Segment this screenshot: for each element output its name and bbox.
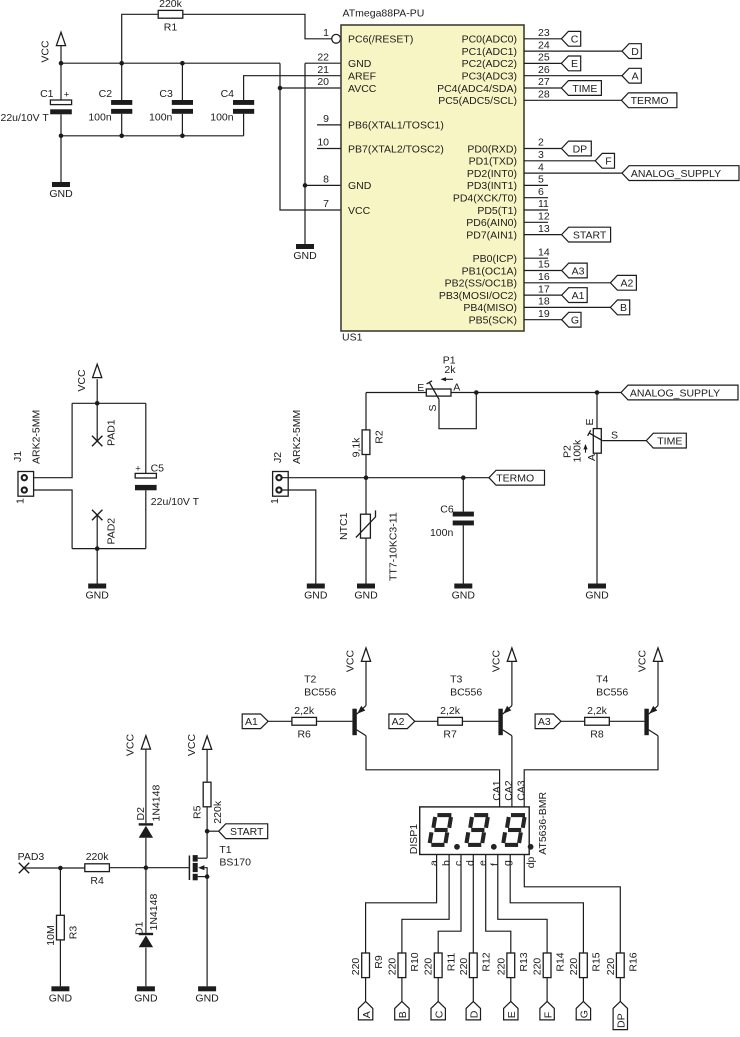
svg-text:R12: R12 [481, 952, 493, 971]
wire NTC1 top [365, 478, 367, 515]
svg-text:2,2k: 2,2k [440, 705, 461, 717]
svg-text:21: 21 [317, 64, 329, 76]
svg-text:GND: GND [49, 992, 73, 1004]
svg-text:C: C [433, 1010, 445, 1018]
svg-text:R1: R1 [164, 22, 178, 34]
wire A2 to R7 [415, 720, 438, 722]
wire R2 top [365, 393, 367, 430]
wire R3 bottom [59, 940, 61, 986]
wire NTC1 bottom [365, 538, 367, 583]
svg-text:TERMO: TERMO [631, 95, 669, 107]
wire T4 collector to CA3 [524, 736, 658, 807]
wire R11 to flag C [437, 978, 439, 1002]
svg-text:20: 20 [317, 76, 329, 88]
svg-text:C1: C1 [40, 88, 54, 100]
wire node to T1 gate [146, 867, 189, 869]
svg-text:GND: GND [348, 58, 372, 70]
pad PAD2 [92, 510, 102, 520]
wire VCC arrow to bus [60, 46, 62, 64]
svg-text:PD3(INT1): PD3(INT1) [467, 180, 517, 192]
net flag E (segment) [504, 1001, 518, 1020]
wire R3 top [59, 868, 61, 915]
net flag A1 [562, 288, 588, 303]
wire R7 to T3 base [462, 720, 498, 722]
net flag B [610, 300, 629, 315]
net flag A2 [610, 275, 636, 290]
wire R13 to flag E [510, 978, 512, 1002]
wire segment b to R10 [402, 855, 449, 954]
wire R15 to flag G [582, 978, 584, 1002]
svg-text:PB4(MISO): PB4(MISO) [463, 302, 517, 314]
svg-text:T4: T4 [596, 673, 608, 685]
svg-text:BS170: BS170 [219, 856, 251, 868]
wire C2 bottom [121, 114, 123, 136]
svg-text:2,2k: 2,2k [294, 705, 315, 717]
pin 4 wire [524, 172, 622, 174]
svg-text:e: e [477, 860, 489, 866]
junction GND pin 8 [303, 183, 308, 188]
ground (D1) [134, 986, 158, 1004]
svg-text:C6: C6 [440, 504, 454, 516]
wire START stub [207, 830, 219, 832]
net flag F [595, 153, 614, 168]
wire R10 to flag B [401, 978, 403, 1002]
wire P1 wiper loop [439, 393, 476, 429]
svg-text:1: 1 [269, 498, 281, 504]
wire R1 left to VCC bus [122, 14, 159, 63]
svg-text:US1: US1 [342, 332, 363, 344]
wire A1 to R6 [268, 720, 292, 722]
resistor R16 220 [605, 952, 640, 977]
pin 16 wire [524, 282, 610, 284]
pin 11 stub [524, 209, 548, 211]
svg-text:GND: GND [585, 590, 609, 602]
svg-text:PB3(MOSI/OC2): PB3(MOSI/OC2) [439, 290, 517, 302]
capacitor C4 100n [210, 88, 254, 123]
pad PAD3 [19, 863, 29, 873]
svg-text:28: 28 [538, 89, 550, 101]
svg-text:A3: A3 [572, 265, 585, 277]
wire PAD2 stub [96, 516, 98, 549]
wire P2 wiper to TIME [602, 440, 646, 442]
svg-text:GND: GND [49, 188, 73, 200]
wire R12 to flag D [472, 978, 474, 1002]
svg-text:PD7(AIN1): PD7(AIN1) [466, 229, 517, 241]
resistor R13 220 [495, 952, 530, 977]
svg-text:B: B [620, 302, 627, 314]
svg-text:VCC: VCC [76, 369, 88, 392]
net flag B (segment) [395, 1001, 409, 1020]
wire segment f to R14 [498, 855, 547, 954]
svg-text:START: START [573, 229, 607, 241]
ground (P2) [585, 584, 609, 602]
wire bus to GND [60, 136, 62, 182]
wire R4 to diode node [110, 867, 146, 869]
resistor R9 220 [350, 953, 385, 978]
pin 6 stub [524, 197, 548, 199]
display DISP1 AT5636-BMR body [408, 792, 549, 855]
svg-text:R10: R10 [409, 952, 421, 971]
pin 9 stub [317, 124, 341, 126]
ground (NTC1) [354, 584, 378, 602]
svg-text:ANALOG_SUPPLY: ANALOG_SUPPLY [630, 387, 720, 399]
resistor R14 220 [532, 952, 567, 977]
wire T1 source to GND [206, 877, 208, 987]
wire T2 collector to CA1 [366, 736, 500, 807]
wire P2 bottom [596, 453, 598, 583]
svg-text:22u/10V T: 22u/10V T [151, 496, 200, 508]
net flag DP (segment) [613, 1001, 627, 1029]
wire GND pin 8 [305, 184, 341, 186]
net flag START [562, 227, 611, 242]
svg-text:R4: R4 [90, 875, 104, 887]
svg-text:T3: T3 [450, 673, 462, 685]
net flag E [561, 56, 580, 71]
svg-text:PB5(SCK): PB5(SCK) [469, 315, 517, 327]
diode D1 1N4148 [139, 933, 153, 948]
net flag D [622, 44, 641, 59]
svg-text:dp: dp [525, 856, 537, 868]
pin 10 stub [317, 148, 341, 150]
net flag TERMO [621, 93, 677, 108]
svg-text:3: 3 [538, 149, 544, 161]
wire ANALOG_SUPPLY rail right [451, 392, 621, 394]
capacitor C6 100n [430, 504, 474, 539]
wire R1 right to reset pin 1 [183, 14, 332, 39]
wire C2 top [121, 63, 123, 100]
svg-text:220: 220 [568, 958, 580, 976]
svg-text:PB6(XTAL1/TOSC1): PB6(XTAL1/TOSC1) [348, 120, 444, 132]
svg-text:220: 220 [532, 958, 544, 976]
svg-text:G: G [579, 1010, 591, 1018]
svg-text:PD0(RXD): PD0(RXD) [467, 143, 517, 155]
svg-text:GND: GND [354, 590, 378, 602]
junction C1/GND bus [59, 134, 64, 139]
svg-text:PC2(ADC2): PC2(ADC2) [462, 58, 517, 70]
net flag C (segment) [431, 1001, 445, 1020]
svg-text:b: b [441, 860, 453, 866]
svg-text:100n: 100n [88, 111, 112, 123]
ground (C6) [452, 584, 476, 602]
svg-text:15: 15 [538, 259, 550, 271]
svg-text:27: 27 [538, 76, 550, 88]
svg-text:GND: GND [86, 590, 110, 602]
svg-text:CA2: CA2 [503, 780, 515, 801]
wire C5 top [145, 403, 147, 473]
svg-text:F: F [542, 1012, 554, 1018]
pin 17 wire [524, 294, 562, 296]
svg-text:PC4(ADC4/SDA): PC4(ADC4/SDA) [437, 83, 517, 95]
svg-text:220: 220 [423, 958, 435, 976]
wire J2 pin1 to GND [282, 490, 316, 584]
pin 5 stub [524, 184, 548, 186]
wire R6 to T2 base [317, 720, 353, 722]
wire PAD3 to R4 [24, 867, 85, 869]
svg-text:a: a [428, 860, 440, 866]
diode D2 1N4148 [139, 823, 153, 838]
svg-text:2k: 2k [444, 364, 456, 376]
svg-text:23: 23 [538, 27, 550, 39]
ground (R3) [49, 986, 73, 1004]
svg-text:D: D [631, 46, 639, 58]
resistor R5 220k [192, 782, 225, 823]
wire TERMO rail [282, 477, 489, 479]
svg-text:S: S [611, 430, 618, 442]
capacitor C5 (electrolytic 22u/10V T) [135, 463, 200, 508]
resistor R8 2,2k [585, 705, 610, 741]
svg-text:C: C [571, 34, 579, 46]
svg-text:ARK2-5MM: ARK2-5MM [291, 410, 303, 464]
wire R9 to flag A [365, 978, 367, 1002]
svg-text:C5: C5 [151, 463, 165, 475]
pin 2 wire [524, 148, 562, 150]
svg-text:16: 16 [538, 271, 550, 283]
svg-text:A: A [361, 1011, 373, 1018]
wire rail to J1 pin 2 [27, 403, 72, 477]
svg-text:2: 2 [538, 137, 544, 149]
svg-text:PAD1: PAD1 [106, 419, 118, 446]
junction C6 [461, 475, 466, 480]
svg-text:ATmega88PA-PU: ATmega88PA-PU [343, 8, 425, 20]
power VCC (J1 section) [76, 364, 102, 391]
svg-text:220k: 220k [86, 851, 110, 863]
svg-text:BC556: BC556 [596, 687, 628, 699]
svg-text:220: 220 [605, 958, 617, 976]
svg-text:25: 25 [538, 52, 550, 64]
wire segment a to R9 [366, 855, 437, 954]
svg-text:1: 1 [14, 498, 26, 504]
wire T3 collector to CA2 [511, 736, 513, 807]
svg-text:R11: R11 [446, 953, 458, 972]
wire R8 to T4 base [609, 720, 644, 722]
svg-text:GND: GND [348, 180, 372, 192]
svg-text:22: 22 [317, 51, 329, 63]
svg-text:R15: R15 [591, 952, 603, 971]
resistor R2 9,1k [351, 430, 386, 458]
svg-text:CA3: CA3 [516, 780, 528, 801]
svg-text:J2: J2 [272, 452, 284, 463]
svg-text:1N4148: 1N4148 [148, 894, 160, 931]
svg-text:B: B [397, 1011, 409, 1018]
svg-text:8: 8 [323, 174, 329, 186]
svg-text:220: 220 [386, 958, 398, 976]
svg-text:PC5(ADC5/SCL): PC5(ADC5/SCL) [438, 95, 517, 107]
svg-text:PC1(ADC1): PC1(ADC1) [462, 46, 517, 58]
wire segment c to R11 [438, 855, 461, 954]
net flag A [622, 68, 641, 83]
svg-text:PD2(INT0): PD2(INT0) [467, 168, 517, 180]
power VCC (D2) [125, 733, 151, 756]
wire rail to GND [96, 549, 98, 584]
power VCC (T4) [637, 648, 663, 672]
svg-text:C3: C3 [159, 88, 173, 100]
svg-text:6: 6 [538, 186, 544, 198]
svg-text:9: 9 [323, 113, 329, 125]
junction D1/D2/gate [144, 865, 149, 870]
resistor R10 220 [386, 952, 421, 977]
junction P2 [595, 390, 600, 395]
net flag F (segment) [540, 1001, 554, 1020]
wire D2 anode to node [145, 838, 147, 868]
svg-text:14: 14 [538, 246, 550, 258]
svg-text:BC556: BC556 [450, 687, 482, 699]
junction C2/GND bus [119, 134, 124, 139]
ground (J1) [86, 584, 110, 602]
ground (T1) [195, 986, 219, 1004]
svg-text:17: 17 [538, 283, 550, 295]
svg-text:5: 5 [538, 174, 544, 186]
resistor R12 220 [458, 952, 493, 977]
wire VCC to pin 7 [280, 63, 341, 210]
wire VCC to R5 [206, 749, 208, 782]
wire VCC top bus [61, 62, 280, 64]
net flag START [219, 824, 268, 839]
svg-text:G: G [571, 315, 579, 327]
thermistor NTC1 TT7-10KC3-11 [338, 510, 399, 581]
net flag A2 (drive) [389, 714, 415, 729]
ground (IC) [293, 244, 317, 262]
svg-text:TIME: TIME [572, 83, 597, 95]
svg-text:TERMO: TERMO [496, 473, 534, 485]
svg-text:E: E [571, 58, 578, 70]
pin 19 wire [524, 319, 562, 321]
svg-text:10: 10 [317, 137, 329, 149]
junction VCC rail [95, 401, 100, 406]
wire R14 to flag F [546, 978, 548, 1002]
svg-text:AT5636-BMR: AT5636-BMR [537, 792, 549, 855]
ground (J2) [304, 584, 328, 602]
pin 1 inversion circle [332, 34, 341, 43]
svg-text:R2: R2 [373, 430, 385, 444]
wire segment dp to R16 [524, 855, 620, 954]
wire C6 top [462, 478, 464, 512]
wire R2 bottom [365, 455, 367, 478]
svg-text:9,1k: 9,1k [351, 437, 363, 458]
svg-text:PB7(XTAL2/TOSC2): PB7(XTAL2/TOSC2) [348, 143, 444, 155]
net flag G (segment) [576, 1001, 590, 1020]
svg-text:R14: R14 [554, 952, 566, 971]
svg-text:PD1(TXD): PD1(TXD) [469, 156, 517, 168]
pin 24 wire [524, 50, 622, 52]
svg-text:VCC: VCC [491, 649, 503, 672]
potentiometer P2 100k [562, 418, 618, 462]
svg-text:D1: D1 [133, 921, 145, 935]
wire VCC to D2 [145, 749, 147, 823]
display digits 8.8.8. [430, 815, 534, 850]
svg-text:D2: D2 [135, 807, 147, 821]
wire segment d to R12 [472, 855, 474, 954]
junction VCC/C2/R1 [119, 61, 124, 66]
wire VCC to T3 emitter [511, 661, 513, 705]
svg-text:DP: DP [573, 143, 588, 155]
svg-text:T2: T2 [304, 673, 316, 685]
resistor R11 220 [423, 953, 458, 978]
wire GND bottom bus [61, 135, 244, 137]
svg-text:E: E [506, 1011, 518, 1018]
pin 28 wire [524, 99, 621, 101]
svg-text:100n: 100n [210, 111, 234, 123]
svg-text:g: g [502, 860, 514, 866]
svg-text:A3: A3 [538, 716, 551, 728]
capacitor C2 100n [88, 88, 132, 123]
svg-text:A1: A1 [245, 716, 258, 728]
connector J2 ARK2-5MM [269, 410, 303, 504]
net flag A (segment) [358, 1001, 372, 1020]
svg-text:R8: R8 [590, 729, 604, 741]
net flag C [561, 31, 580, 46]
wire ANALOG_SUPPLY rail left [366, 392, 426, 394]
svg-text:TT7-10KC3-11: TT7-10KC3-11 [387, 512, 399, 581]
svg-text:11: 11 [538, 198, 549, 210]
svg-text:A2: A2 [620, 278, 633, 290]
svg-text:VCC: VCC [40, 40, 52, 63]
svg-text:NTC1: NTC1 [338, 512, 350, 540]
svg-text:PC6(/RESET): PC6(/RESET) [348, 34, 413, 46]
svg-text:26: 26 [538, 64, 550, 76]
resistor R7 2,2k [438, 705, 463, 741]
svg-text:GND: GND [134, 992, 158, 1004]
resistor R6 2,2k [292, 705, 317, 741]
net flag TERMO (sense node) [489, 470, 545, 485]
svg-text:R3: R3 [68, 926, 80, 940]
junction PAD2/GND rail [95, 546, 100, 551]
junction AVCC branch [278, 86, 283, 91]
transistor T4 BC556 (PNP) [596, 673, 658, 736]
svg-text:DISP1: DISP1 [408, 824, 420, 855]
svg-text:PB1(OC1A): PB1(OC1A) [462, 265, 517, 277]
svg-text:1N4148: 1N4148 [151, 785, 163, 822]
net flag A3 (drive) [535, 714, 561, 729]
svg-text:d: d [465, 860, 477, 866]
svg-text:R13: R13 [518, 952, 530, 971]
svg-text:T1: T1 [219, 844, 231, 856]
svg-text:c: c [452, 861, 464, 866]
wire node to D1 [145, 868, 147, 933]
svg-text:12: 12 [538, 211, 550, 223]
transistor T1 BS170 (N-MOSFET) [189, 844, 251, 880]
net flag DP [562, 141, 592, 156]
resistor R3 10M [45, 915, 80, 945]
junction R2/NTC1 [364, 475, 369, 480]
resistor R15 220 [568, 952, 603, 977]
svg-text:10M: 10M [45, 925, 57, 945]
svg-text:22u/10V T: 22u/10V T [1, 112, 50, 124]
junction P1 wiper loop [474, 390, 479, 395]
wire segment e to R13 [486, 855, 511, 954]
wire R5 to drain [206, 807, 208, 858]
svg-text:F: F [605, 156, 611, 168]
svg-text:GND: GND [195, 992, 219, 1004]
power VCC (T2) [345, 648, 371, 672]
svg-text:100n: 100n [149, 111, 173, 123]
svg-text:START: START [230, 826, 264, 838]
svg-text:DP: DP [616, 1013, 628, 1028]
net flag D (segment) [466, 1001, 480, 1020]
power VCC (top left) [40, 32, 66, 62]
svg-text:1: 1 [323, 27, 329, 39]
net flag ANALOG_SUPPLY (analog node) [621, 385, 738, 400]
svg-text:A2: A2 [392, 716, 405, 728]
svg-text:S: S [427, 404, 439, 411]
wire segment g to R15 [510, 855, 583, 954]
svg-text:BC556: BC556 [304, 687, 336, 699]
net flag TIME [561, 81, 601, 96]
svg-text:A1: A1 [572, 290, 585, 302]
svg-text:100k: 100k [572, 439, 584, 463]
net flag G [562, 312, 581, 327]
svg-text:VCC: VCC [348, 205, 371, 217]
svg-text:R16: R16 [628, 952, 640, 971]
